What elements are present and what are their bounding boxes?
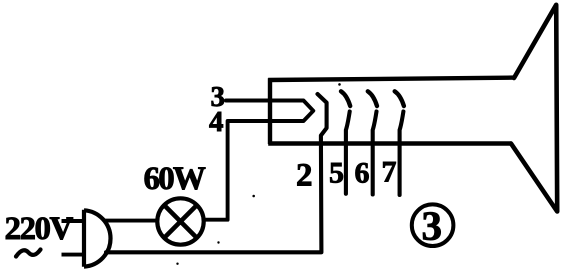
plug bottom prong [62, 253, 85, 257]
CRT funnel and screen (tube V1) [511, 5, 557, 212]
tube neck left wall [268, 78, 272, 144]
plug P1 semicircle body [84, 210, 111, 266]
grid electrode (pin 7) [395, 91, 404, 106]
grid electrode (pin 6) [368, 91, 377, 106]
lamp left wire to plug [103, 219, 158, 223]
plug P1 flat side [82, 210, 86, 267]
noise speck [338, 83, 341, 86]
svg-text:6: 6 [355, 157, 370, 190]
lamp X strokes [164, 205, 196, 237]
svg-text:3: 3 [422, 203, 443, 249]
svg-text:5: 5 [329, 157, 344, 190]
noise speck [252, 195, 255, 198]
cathode electrode (pin 2) + lead + bottom wire to plug [106, 94, 327, 252]
tube neck bottom wall [268, 141, 511, 146]
lamp L1 (60W) circle [157, 198, 203, 244]
tube neck top wall [268, 78, 514, 80]
plug top prong [62, 219, 85, 223]
svg-text:2: 2 [296, 158, 313, 194]
figure number circle [412, 204, 454, 246]
svg-text:4: 4 [209, 106, 224, 138]
noise speck [176, 263, 178, 265]
AC tilde symbol [16, 250, 41, 257]
heater filament (pins 3,4) + wire to lamp [205, 101, 314, 220]
noise speck [217, 241, 219, 243]
svg-text:7: 7 [382, 156, 397, 189]
grid electrode (pin 5) [341, 91, 350, 106]
svg-text:60W: 60W [144, 161, 206, 197]
svg-text:220V: 220V [5, 211, 74, 247]
